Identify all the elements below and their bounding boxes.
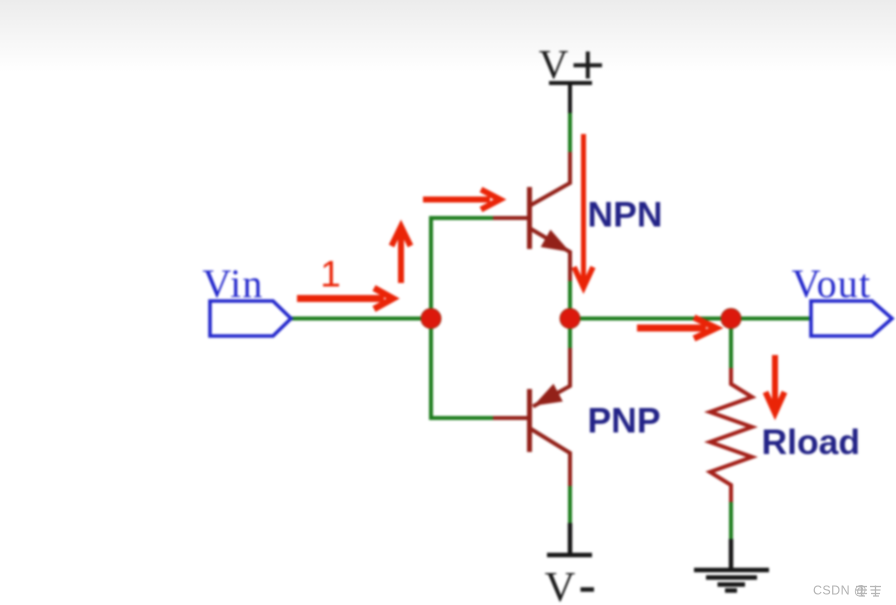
node B junction dot bbox=[560, 309, 580, 329]
wire: left vertical bus with base stubs bbox=[431, 218, 493, 418]
V+ label bbox=[539, 41, 602, 87]
port Vout bbox=[792, 261, 892, 336]
power symbol V- bbox=[547, 523, 592, 555]
ground bbox=[694, 539, 769, 591]
wire: NPN emitter to node B bbox=[568, 281, 572, 318]
wire: node C to Rload bbox=[729, 318, 733, 368]
wire: V+ to NPN collector bbox=[568, 113, 572, 152]
port Vin bbox=[202, 261, 291, 336]
wire: input Vin to node A bbox=[291, 317, 431, 321]
transistor Q1 NPN bbox=[493, 152, 570, 281]
transistor Q2 PNP bbox=[493, 348, 570, 486]
resistor Rload bbox=[710, 368, 752, 502]
wire: PNP collector to V- bbox=[568, 486, 572, 523]
power symbol V+ bbox=[549, 83, 592, 113]
current arrow down (NPN collector) bbox=[574, 134, 593, 288]
current arrow right (output) bbox=[637, 318, 716, 339]
current arrow right (NPN base) bbox=[423, 190, 500, 210]
current arrow up (base drive) bbox=[392, 227, 411, 284]
wire: node B to node C to Vout bbox=[570, 317, 811, 321]
V- label bbox=[545, 564, 594, 605]
current arrow 1 (input, horizontal) bbox=[297, 288, 393, 309]
wire: node B to PNP emitter bbox=[568, 318, 572, 348]
node C junction dot bbox=[721, 309, 741, 329]
node A junction dot bbox=[421, 309, 441, 329]
wire: Rload to ground bbox=[729, 502, 733, 539]
current arrow down (Rload) bbox=[766, 355, 785, 413]
